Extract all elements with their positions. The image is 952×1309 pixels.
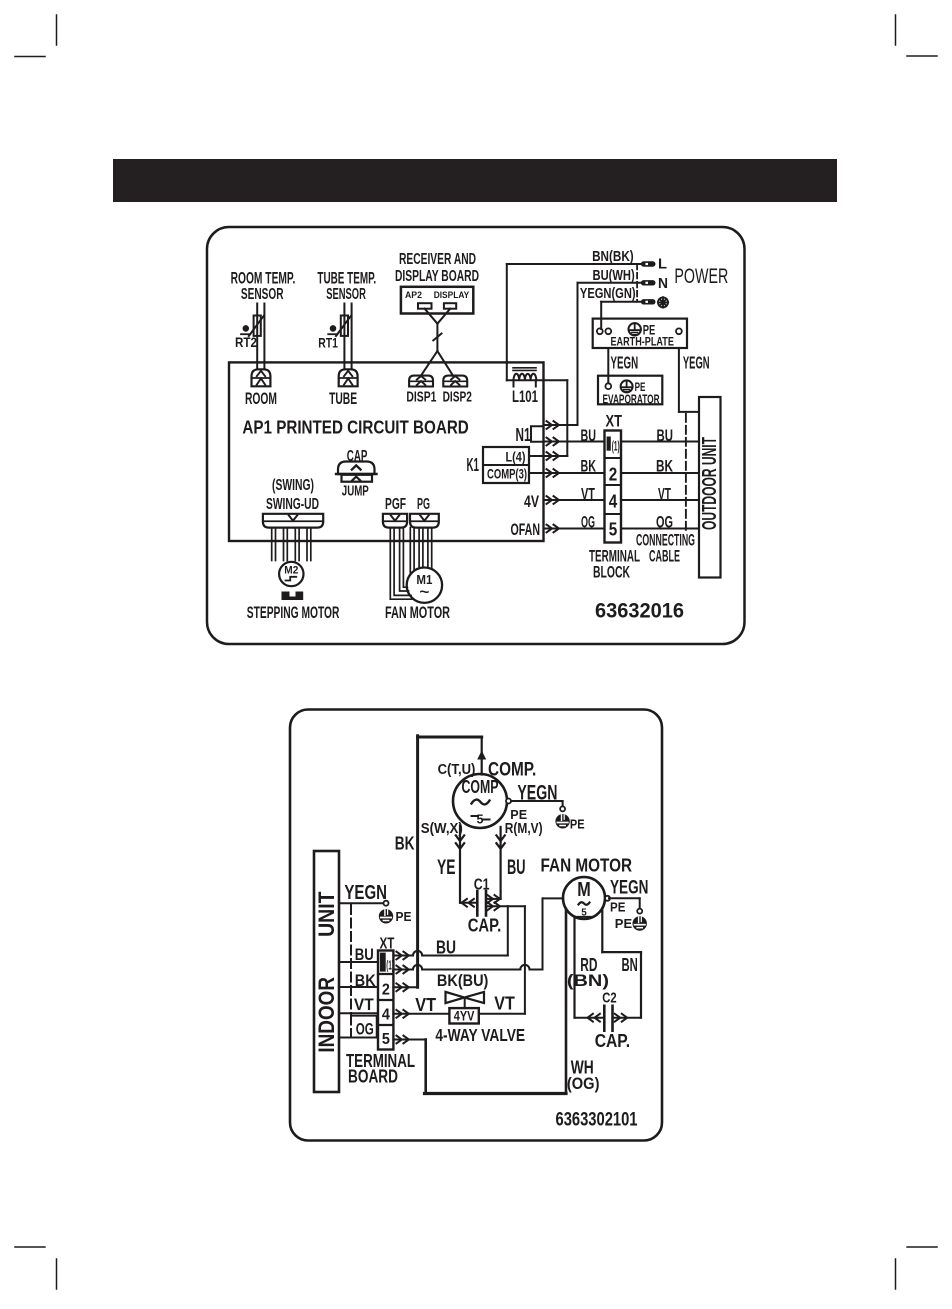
svg-text:VT: VT [415,994,436,1015]
svg-text:(BN): (BN) [567,971,609,990]
svg-text:4: 4 [609,491,618,512]
svg-text:N: N [658,275,668,292]
svg-text:4V: 4V [524,493,539,511]
svg-text:YEGN: YEGN [611,353,639,373]
svg-text:(SWING): (SWING) [272,477,314,494]
svg-text:PG: PG [417,496,430,513]
svg-text:CAP.: CAP. [468,916,502,936]
svg-text:RT1: RT1 [318,334,338,350]
svg-text:63632016: 63632016 [595,599,684,623]
svg-text:VT: VT [658,486,671,504]
svg-text:BN: BN [622,954,638,975]
svg-text:BK: BK [656,458,673,476]
svg-text:DISPLAY: DISPLAY [434,290,470,300]
svg-text:OUTDOOR UNIT: OUTDOOR UNIT [699,437,721,530]
svg-text:SWING-UD: SWING-UD [266,496,319,513]
svg-text:N1: N1 [516,424,531,445]
svg-text:EVAPORATOR: EVAPORATOR [603,392,660,406]
svg-text:DISPLAY BOARD: DISPLAY BOARD [395,268,479,285]
svg-text:BLOCK: BLOCK [593,563,630,582]
svg-text:BK: BK [581,458,597,476]
svg-text:PE: PE [643,322,656,338]
svg-text:SENSOR: SENSOR [241,286,284,303]
svg-text:PGF: PGF [385,496,406,513]
svg-text:BU: BU [436,938,456,958]
svg-text:BU(WH): BU(WH) [593,268,635,284]
svg-text:YEGN: YEGN [517,781,557,805]
svg-text:6363302101: 6363302101 [556,1110,638,1131]
svg-text:INDOOR: INDOOR [314,977,339,1053]
svg-text:YE: YE [437,856,456,879]
svg-text:K1: K1 [467,455,480,475]
svg-text:STEPPING MOTOR: STEPPING MOTOR [247,604,340,622]
svg-text:BU: BU [581,427,597,445]
svg-text:5: 5 [477,812,484,827]
svg-text:TUBE TEMP.: TUBE TEMP. [317,269,376,288]
svg-text:S(W,X): S(W,X) [421,821,463,837]
svg-text:COMP(3): COMP(3) [487,467,527,482]
svg-text:VT: VT [354,995,374,1014]
svg-text:L101: L101 [512,388,538,406]
svg-text:YEGN: YEGN [344,882,387,904]
svg-text:CAP.: CAP. [595,1031,630,1051]
svg-text:EARTH-PLATE: EARTH-PLATE [611,336,675,348]
svg-text:PE: PE [510,807,527,822]
svg-text:XT: XT [606,413,623,431]
svg-text:DISP1: DISP1 [406,390,436,406]
svg-text:(OG): (OG) [567,1074,600,1093]
svg-text:4YV: 4YV [454,1009,475,1024]
svg-text:UNIT: UNIT [314,891,339,937]
svg-text:5: 5 [609,519,618,540]
svg-text:4-WAY VALVE: 4-WAY VALVE [435,1025,525,1045]
svg-text:2: 2 [382,981,390,998]
svg-text:SENSOR: SENSOR [326,286,366,303]
svg-text:POWER: POWER [674,265,728,288]
svg-text:M: M [577,879,591,901]
svg-text:RT2: RT2 [235,334,257,350]
svg-text:OG: OG [581,514,595,532]
svg-text:DISP2: DISP2 [443,390,472,406]
svg-text:M2: M2 [284,565,298,577]
svg-text:L: L [658,256,667,273]
svg-text:YEGN(GN): YEGN(GN) [580,286,636,302]
svg-text:FAN MOTOR: FAN MOTOR [541,856,633,876]
svg-text:BN(BK): BN(BK) [592,249,634,265]
svg-text:VT: VT [581,486,595,504]
svg-text:BU: BU [657,427,674,445]
svg-text:YEGN: YEGN [610,878,648,899]
svg-text:5: 5 [382,1031,390,1048]
svg-text:AP2: AP2 [405,290,422,300]
svg-text:BOARD: BOARD [348,1067,398,1087]
svg-text:COMP: COMP [462,776,499,797]
svg-text:4: 4 [382,1006,390,1023]
svg-text:JUMP: JUMP [342,482,369,499]
svg-text:BK: BK [395,833,415,854]
svg-text:BU: BU [507,856,526,879]
svg-text:BU: BU [355,945,374,964]
svg-text:AP1 PRINTED CIRCUIT BOARD: AP1 PRINTED CIRCUIT BOARD [242,417,468,438]
svg-text:PE: PE [615,916,633,931]
svg-text:CABLE: CABLE [649,547,680,566]
svg-text:BK(BU): BK(BU) [437,971,489,990]
svg-text:2: 2 [609,464,618,485]
svg-text:OG: OG [656,514,673,532]
svg-text:(1): (1) [612,438,620,454]
svg-text:RECEIVER AND: RECEIVER AND [399,251,476,268]
svg-text:BK: BK [355,971,376,990]
svg-text:PE: PE [570,817,585,832]
svg-text:~: ~ [419,584,429,601]
svg-text:OG: OG [356,1020,374,1039]
svg-text:PE: PE [610,900,626,915]
svg-text:PE: PE [396,909,412,924]
svg-text:C2: C2 [602,990,616,1007]
svg-text:R(M,V): R(M,V) [505,821,543,837]
svg-text:FAN MOTOR: FAN MOTOR [385,604,450,622]
svg-text:ROOM: ROOM [245,389,277,408]
svg-text:VT: VT [494,993,515,1014]
svg-text:YEGN: YEGN [683,353,710,373]
svg-text:L(4): L(4) [506,450,526,465]
svg-text:OFAN: OFAN [511,521,541,539]
svg-text:ROOM TEMP.: ROOM TEMP. [231,269,296,288]
svg-text:TUBE: TUBE [329,389,357,408]
